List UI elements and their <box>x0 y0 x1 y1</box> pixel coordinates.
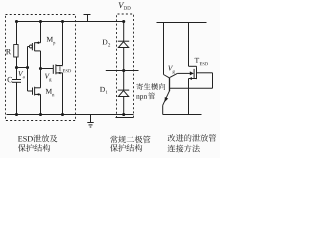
transistor T_ESD (right, improved connection) <box>193 69 195 78</box>
wire: left VDD top rail <box>17 21 124 23</box>
wire: gate column vertical <box>27 47 29 92</box>
wire: source down <box>188 79 190 115</box>
transistor Mp (PMOS) <box>28 46 30 48</box>
node: rail junction at R column <box>15 20 18 23</box>
wire: collector branch vertical <box>163 23 165 75</box>
label D1 <box>100 87 108 94</box>
wire: emitter down <box>162 105 164 114</box>
label Mp <box>47 37 56 45</box>
caption: diode protection <box>110 136 150 144</box>
label Va <box>18 71 24 78</box>
node A: Va junction <box>15 66 18 69</box>
dashed box: ESD clamp outline <box>6 15 76 121</box>
wire: Vg to T_ESD gate <box>41 68 54 70</box>
diode D1 <box>118 89 129 91</box>
wire: bottom VSS rail <box>7 114 134 116</box>
wire: capacitor to bottom rail <box>16 82 18 114</box>
wire: source contact with arrow <box>189 78 197 80</box>
label C <box>8 77 13 82</box>
wire: R column from rail to resistor <box>16 22 18 45</box>
label R <box>6 49 11 54</box>
ground <box>90 115 92 123</box>
node: rail junction at inverter column <box>39 20 42 23</box>
wire: Va to gate column <box>17 67 28 69</box>
wire: VDD to D2 <box>123 22 125 42</box>
transistor Q parasitic npn: base bar <box>169 77 171 91</box>
capacitor C <box>12 79 21 81</box>
label Vg (right) <box>168 66 175 74</box>
label VDD <box>119 2 131 9</box>
wire: bulk tie loop to npn base <box>197 72 213 74</box>
note: parasitic npn caption <box>136 83 165 90</box>
wire: D2 to IO node <box>123 48 125 91</box>
label D2 <box>103 40 111 47</box>
transistor T_ESD (clamp NMOS) <box>52 65 54 74</box>
wire: D1 to VSS <box>123 97 125 115</box>
node: Vg inverter output <box>39 67 42 70</box>
wire: right VDD rail <box>157 22 207 24</box>
terminal: pad stub on top rail <box>87 15 89 22</box>
wire: drain from rail <box>188 23 190 67</box>
label T_ESD (left) <box>58 66 71 73</box>
transistor Q parasitic npn: emitter diagonal <box>163 91 170 106</box>
diode D2 <box>118 40 129 42</box>
resistor R <box>14 45 18 58</box>
node: rail junction at T_ESD column <box>61 20 64 23</box>
transistor Mn (NMOS) <box>28 90 33 92</box>
wire: Vg gate lead with arrow <box>170 73 177 77</box>
wire: resistor to node Va <box>16 57 18 80</box>
dashed box: diode clamp outline <box>117 14 134 118</box>
transistor Q parasitic npn: collector diagonal <box>164 75 170 78</box>
wire: IO pad line <box>106 70 139 72</box>
label Vg (left) <box>45 74 52 82</box>
node: VDD entry junction <box>122 20 125 23</box>
caption: ESD clamp <box>18 136 33 142</box>
label T_ESD (right) <box>195 58 208 65</box>
node: IO junction <box>122 69 125 72</box>
caption: improved connection <box>168 134 217 142</box>
wire: right bottom rail <box>163 114 202 116</box>
label Mn <box>46 89 55 96</box>
